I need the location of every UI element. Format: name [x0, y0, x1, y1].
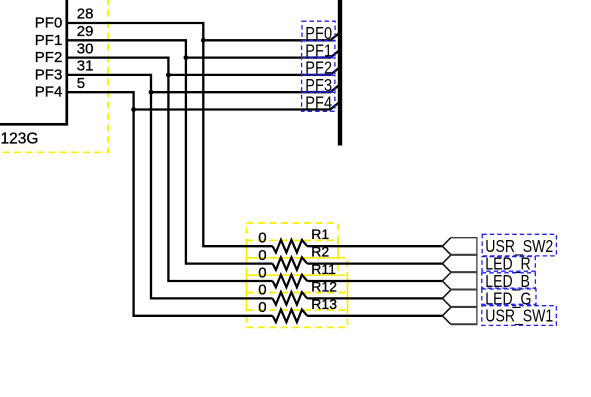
svg-text:PF0: PF0 [35, 15, 63, 32]
svg-text:R11: R11 [311, 261, 336, 277]
svg-text:0: 0 [258, 264, 266, 281]
svg-text:PF4: PF4 [305, 93, 332, 113]
svg-text:0: 0 [258, 299, 266, 316]
svg-text:0: 0 [258, 247, 266, 264]
svg-text:31: 31 [77, 58, 94, 75]
svg-text:28: 28 [77, 6, 94, 23]
svg-text:PF1: PF1 [35, 32, 63, 49]
svg-text:0: 0 [258, 282, 266, 299]
svg-text:R2: R2 [311, 244, 329, 260]
svg-text:PF3: PF3 [35, 66, 63, 83]
svg-text:R13: R13 [311, 296, 337, 312]
svg-text:0: 0 [258, 230, 266, 247]
svg-text:R12: R12 [311, 278, 337, 294]
svg-text:USR_SW1: USR_SW1 [485, 306, 553, 326]
svg-text:PF2: PF2 [35, 49, 63, 66]
svg-text:R1: R1 [311, 226, 329, 242]
svg-text:5: 5 [77, 75, 85, 92]
svg-text:30: 30 [77, 40, 94, 57]
svg-text:29: 29 [77, 23, 94, 40]
svg-text:123G: 123G [1, 131, 39, 148]
svg-text:PF4: PF4 [35, 84, 63, 101]
